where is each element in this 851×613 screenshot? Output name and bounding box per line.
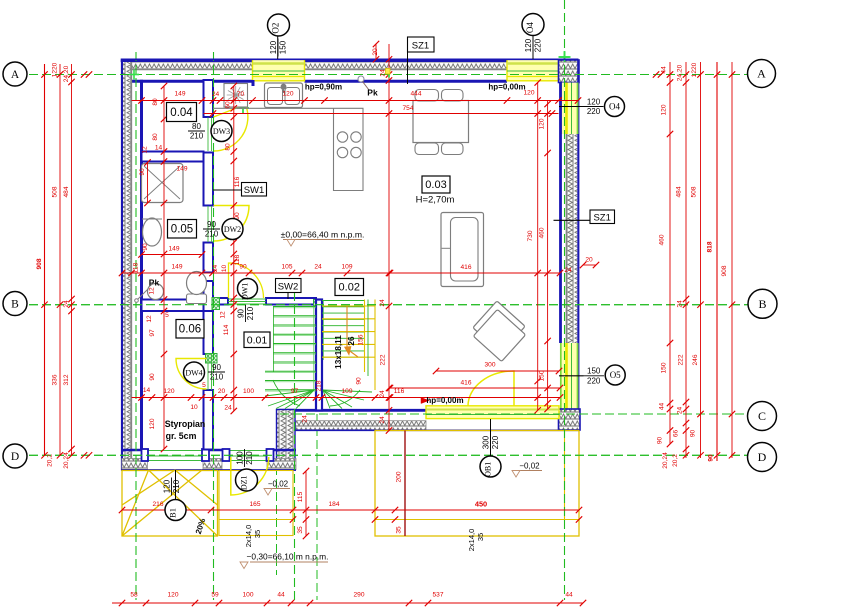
wall top insulation hatch middle segment [304,62,507,68]
ramp outline left terrace [122,471,218,537]
svg-text:246: 246 [692,354,699,365]
svg-text:20,24: 20,24 [662,452,669,469]
right wall outer line [577,60,579,431]
top wall outer line over windows [121,58,579,60]
door DZ1 leaf and arc [231,457,269,495]
axis vertical right [564,0,566,600]
svg-text:150: 150 [587,367,601,376]
svg-text:35: 35 [297,526,304,534]
interior dim vertical left rooms x164 [163,86,165,449]
partition wall W1 segment WC [204,281,214,312]
wall bottom-left outer line [121,469,296,471]
svg-text:100: 100 [235,451,244,465]
right terrace red edge [404,431,406,537]
axis line C horizontal [280,413,748,415]
svg-text:450: 450 [475,500,487,509]
svg-text:5: 5 [202,382,206,389]
partition wall SW2 hall east part [266,298,316,305]
window O4 size fraction [524,37,543,55]
label box SW2 [276,279,302,293]
wall bottom-right outer line [277,429,580,431]
axis circle D left [3,444,27,468]
svg-text:24: 24 [379,416,386,424]
right dim column line 1 [669,62,671,444]
svg-text:±0,00=66,40 m n.p.m.: ±0,00=66,40 m n.p.m. [281,229,365,239]
svg-text:109: 109 [341,264,352,271]
corner pillar bottom right [559,409,581,430]
svg-text:150: 150 [279,40,288,54]
dim marks top wall 20 [375,44,377,59]
door circle OB1 with fraction and leader [490,419,492,456]
door B1 threshold green lines [149,450,203,452]
svg-text:120: 120 [661,104,668,115]
water heater Pk circle [148,284,164,300]
svg-text:−0,02: −0,02 [519,462,540,471]
svg-text:210: 210 [205,230,219,239]
left dim column line 1 [44,64,46,456]
svg-text:24,20: 24,20 [677,64,684,81]
svg-text:24: 24 [379,299,386,307]
svg-text:216: 216 [152,501,163,508]
patio door leaf arc OB1 [468,371,514,406]
svg-text:12: 12 [142,146,149,154]
dim line bottom y601 [112,602,583,604]
svg-text:218: 218 [316,380,323,391]
svg-text:120: 120 [149,418,156,429]
svg-text:149: 149 [171,264,182,271]
axis line D overlay [3,454,748,456]
wall bottom-left hatch east [267,459,296,470]
armchair rotated [469,301,530,362]
right wall window lower O5 [560,343,578,409]
hall corner wall pillar [277,410,296,471]
right terrace inner lines [375,519,579,521]
window O2 size fraction [269,39,288,57]
svg-text:20: 20 [218,388,226,395]
svg-text:O4: O4 [525,22,535,33]
patio door OB1 band [426,406,559,419]
stair wall vertical [316,300,322,411]
svg-text:24: 24 [314,264,322,271]
wall bottom-left inner line west pier [121,449,149,452]
svg-text:−0,30=66,10 m n.p.m.: −0,30=66,10 m n.p.m. [247,552,329,562]
svg-text:444: 444 [410,91,421,98]
door DZ1 threshold green lines [230,450,268,452]
svg-text:165: 165 [249,501,260,508]
svg-text:300: 300 [481,435,490,449]
svg-text:336: 336 [52,374,59,385]
svg-text:120: 120 [162,479,171,493]
partition wall W2 between 0.04 and 0.05 [142,152,204,162]
axis circle B left [3,292,27,316]
axis vertical 3 [294,292,296,600]
interior dim vertical living x537 [537,83,539,411]
right dim column line 3 [700,62,702,458]
axis vertical 1 [135,52,137,600]
svg-text:Pk: Pk [367,88,378,98]
left dim column line 2 [59,64,61,456]
door jamb DZ1 west [223,449,230,461]
svg-text:120: 120 [167,592,178,599]
svg-text:210: 210 [210,373,224,382]
svg-text:SZ1: SZ1 [412,41,429,52]
svg-text:105: 105 [281,264,292,271]
door circle DW4 with fraction [184,362,205,383]
svg-text:908: 908 [36,258,43,269]
svg-text:35: 35 [476,533,485,541]
axis line A overlay [3,74,748,76]
svg-text:80: 80 [152,98,159,106]
svg-text:120: 120 [163,388,174,395]
svg-text:460: 460 [659,234,666,245]
dim ticks line y519 [293,519,579,521]
svg-text:B1: B1 [168,508,178,518]
svg-text:0.04: 0.04 [170,107,193,119]
wall top inner face line west [132,80,253,83]
svg-text:20,24: 20,24 [63,452,70,469]
svg-text:90: 90 [708,454,715,462]
svg-text:80: 80 [152,133,159,141]
axis vertical stair [316,388,318,600]
right wall insulation hatch [567,134,577,343]
svg-text:100: 100 [243,388,254,395]
svg-text:10: 10 [221,265,228,273]
svg-text:120: 120 [587,97,601,106]
right dim column line 2 [685,62,687,458]
right dim column line 5 [731,62,733,458]
door DW4 threshold green lines [207,354,209,390]
svg-text:300: 300 [484,362,495,369]
stair winder fan upper [323,390,330,409]
svg-text:20,2: 20,2 [47,454,54,467]
middle terrace steps [219,471,293,536]
right wall masonry gray line [566,134,568,343]
corner pillar top right [559,60,580,83]
svg-text:210: 210 [246,306,255,320]
svg-text:220: 220 [587,376,601,385]
svg-text:120: 120 [524,38,533,52]
partition wall W1 segment mid [204,153,214,206]
svg-text:120: 120 [269,40,278,54]
svg-text:80: 80 [192,122,201,131]
door circle B1 with fraction and leader [175,470,177,499]
partition wall SW2 hall west jamb [219,298,228,305]
right terrace outline [375,431,579,537]
svg-text:100: 100 [242,592,253,599]
svg-text:149: 149 [176,166,187,173]
svg-text:90: 90 [657,437,664,445]
svg-text:416: 416 [460,380,471,387]
svg-text:120: 120 [282,91,293,98]
door DW2 threshold green lines [207,206,209,242]
svg-text:A: A [11,69,20,81]
wall bottom-left hatch mid [203,459,222,470]
svg-text:220: 220 [587,107,601,116]
svg-text:Pk: Pk [149,278,160,288]
partition wall W1 segment below DW2 [204,243,214,273]
svg-text:10: 10 [190,404,198,411]
svg-text:20,2: 20,2 [672,454,679,467]
svg-text:80: 80 [225,143,232,151]
svg-text:44: 44 [277,592,285,599]
left wall masonry gray line [130,62,132,459]
svg-text:120: 120 [539,118,546,129]
stair upper flight treads green [322,300,365,302]
kitchen sink double bowl [265,83,303,108]
svg-text:115: 115 [297,491,304,502]
door jamb B1 west [142,449,149,461]
svg-text:35: 35 [253,530,262,538]
axis line A horizontal [3,74,748,76]
svg-text:730: 730 [527,230,534,241]
axis line C overlay [280,413,748,415]
axis vertical 2 overlay [213,52,215,600]
right dim column line 4 [716,62,718,461]
left dim column line 3 [71,64,73,456]
svg-text:12: 12 [146,315,153,323]
svg-text:24: 24 [224,405,232,412]
shower tray [142,164,184,203]
window circle O2 top with leader [277,36,279,59]
window O4 in top wall [507,59,559,81]
svg-text:90: 90 [142,243,149,251]
stair winder arc [273,380,300,406]
kitchen Pk marker [358,76,364,82]
axis circle B right [748,289,777,318]
svg-text:12: 12 [149,287,156,295]
room box 0.05 [168,220,197,239]
svg-text:D: D [11,451,19,463]
axis circle A left [3,62,27,86]
svg-text:24: 24 [302,415,309,423]
axis line B horizontal [3,304,748,306]
kitchen wall stub top [252,80,255,86]
svg-text:13x18,11: 13x18,11 [334,335,343,369]
axis line D horizontal [3,454,748,456]
door DW3 leaf and arc [214,105,248,152]
svg-text:SW2: SW2 [278,282,299,293]
room box 0.04 [167,103,197,122]
svg-text:1220: 1220 [52,62,59,77]
svg-text:90: 90 [236,309,245,318]
right dim tick cluster A [653,71,659,77]
svg-text:90: 90 [207,220,216,229]
svg-text:90: 90 [356,377,363,385]
svg-text:0.03: 0.03 [425,179,446,191]
svg-text:149: 149 [168,246,179,253]
vent shaft block A [212,298,220,310]
left dim tick cluster bottom [81,452,87,458]
svg-text:SZ1: SZ1 [593,213,610,224]
svg-text:26: 26 [347,336,356,346]
svg-text:116: 116 [394,388,405,395]
vent shaft block C [314,300,321,307]
svg-text:290: 290 [353,592,364,599]
svg-text:O4: O4 [609,102,620,112]
washbasin oval [143,218,162,246]
vent shaft block B [206,354,218,364]
svg-text:35: 35 [396,526,403,534]
axis vertical right overlay [564,0,566,600]
svg-text:1220: 1220 [691,62,698,77]
axis vertical 3 overlay [294,292,296,600]
door circle DZ1 with fraction [235,449,254,467]
svg-text:0.01: 0.01 [247,334,268,346]
dim line y397 lower [132,397,561,399]
svg-text:150: 150 [539,370,546,381]
svg-text:O2: O2 [271,23,281,34]
door circle DW1 with fraction [238,279,258,299]
interior dim vertical corridor x234 [233,86,235,411]
door circle DW3 with fraction [188,122,205,141]
window O2 in top wall [253,59,305,81]
dim line y100 interior top [132,100,579,102]
svg-text:222: 222 [678,354,685,365]
right wall inner face line [559,83,562,344]
svg-text:hp=0,00m: hp=0,00m [488,83,525,92]
svg-text:149: 149 [174,91,185,98]
left wall insulation hatch [123,62,130,470]
dim line 416 patio [390,387,560,389]
label box SZ1 right with leader [554,219,591,221]
stair upper flight right rail [364,300,366,373]
room box 0.03 [422,176,450,193]
svg-text:220: 220 [534,38,543,52]
svg-text:O5: O5 [610,370,621,380]
partition wall W1 segment 0.06 lower [204,390,214,450]
room box 0.02 [335,279,364,296]
svg-text:200: 200 [396,471,403,482]
interior dim vertical living x389 [388,44,390,431]
svg-text:109: 109 [341,388,352,395]
stair winder fan lower [265,390,314,396]
label box SZ1 top with leader [408,37,435,52]
dim line 300 patio door [436,370,559,372]
svg-text:416: 416 [460,264,471,271]
wall top outer line [121,60,579,62]
svg-text:24: 24 [564,267,572,274]
axis circle D right [748,443,777,472]
fridge with snowflake [224,84,248,108]
stair lower flight treads [273,306,316,308]
window circle O4 top with leader [532,36,534,60]
toilet [187,294,207,304]
svg-text:58: 58 [130,592,138,599]
svg-text:24,20: 24,20 [63,65,70,82]
svg-text:DW3: DW3 [213,127,230,136]
dim line y273 mid [122,272,560,274]
left dim tick cluster top [81,71,87,77]
left wall outer line [121,60,123,471]
svg-text:90: 90 [690,430,697,438]
door jamb B1 east [202,449,209,461]
svg-text:DW1: DW1 [241,283,250,300]
svg-text:222: 222 [380,354,387,365]
svg-text:70: 70 [237,91,245,98]
axis marker top right [564,51,566,63]
wall top masonry gray line [122,68,253,70]
svg-text:14: 14 [155,145,163,152]
svg-text:24: 24 [212,265,219,273]
svg-text:12: 12 [220,311,227,319]
partition wall W1 segment 0.06 upper [204,311,214,354]
door circle DW2 with fraction [203,220,220,239]
svg-text:24: 24 [677,300,684,308]
door B1 ramp diagonals [122,470,218,536]
svg-text:184: 184 [328,501,339,508]
svg-text:66: 66 [673,430,680,438]
svg-text:44: 44 [659,403,666,411]
svg-text:150: 150 [661,362,668,373]
svg-text:210: 210 [245,451,254,465]
arrow before hp=0,00m patio [421,398,429,404]
wall bottom-left inner line mid pier [202,449,230,452]
room box 0.06 [176,320,204,339]
axis vertical 1 overlay [135,52,137,600]
wall bottom-right inner face line [277,409,559,412]
svg-text:hp=0,00m: hp=0,00m [426,396,463,405]
stove with burners [337,132,347,142]
left wall inner face line [140,80,143,449]
svg-text:210: 210 [172,479,181,493]
door jamb DZ1 east [267,449,274,461]
svg-text:hp=0,90m: hp=0,90m [305,83,342,92]
svg-text:312: 312 [63,374,70,385]
svg-text:H=2,70m: H=2,70m [416,195,455,206]
svg-text:59: 59 [211,592,219,599]
svg-text:Styropian: Styropian [165,419,206,429]
sofa [441,213,484,287]
svg-text:508: 508 [691,186,698,197]
svg-text:508: 508 [52,186,59,197]
dim line y510 bottom terraces [122,509,579,511]
stair direction arrow [346,306,348,349]
svg-text:2x14,0: 2x14,0 [467,529,476,552]
svg-text:44: 44 [565,592,573,599]
axis cross marker A-wall left [129,74,139,76]
svg-text:210: 210 [190,132,204,141]
door DW1 leaf and arc [229,263,264,298]
svg-text:0.05: 0.05 [171,224,193,236]
dining chairs top [415,90,439,102]
label box SW1 with leader [213,189,242,191]
dining table [413,101,469,143]
svg-text:20: 20 [585,257,593,264]
svg-text:116: 116 [234,176,241,187]
svg-text:24: 24 [379,390,386,398]
window label O4 right side [559,106,585,108]
svg-text:0.02: 0.02 [339,282,360,294]
dining chairs bottom [415,143,439,155]
svg-text:97: 97 [291,388,299,395]
window label O5 right side [559,375,584,377]
svg-text:118: 118 [133,262,140,273]
axis marker kitchen window [252,61,254,73]
svg-text:D: D [758,450,767,464]
svg-text:SW1: SW1 [244,185,265,196]
svg-text:118: 118 [234,254,241,265]
wall bottom-left hatch corner [122,459,147,470]
svg-text:14: 14 [143,387,151,394]
svg-text:97: 97 [149,329,156,337]
wall top insulation hatch west segment [122,62,253,68]
svg-text:90: 90 [139,168,146,176]
svg-text:−0,02: −0,02 [268,480,289,489]
svg-text:A: A [757,67,766,81]
wall bottom-left inner line east pier [267,449,297,452]
svg-text:90: 90 [149,373,156,381]
svg-text:537: 537 [432,592,443,599]
